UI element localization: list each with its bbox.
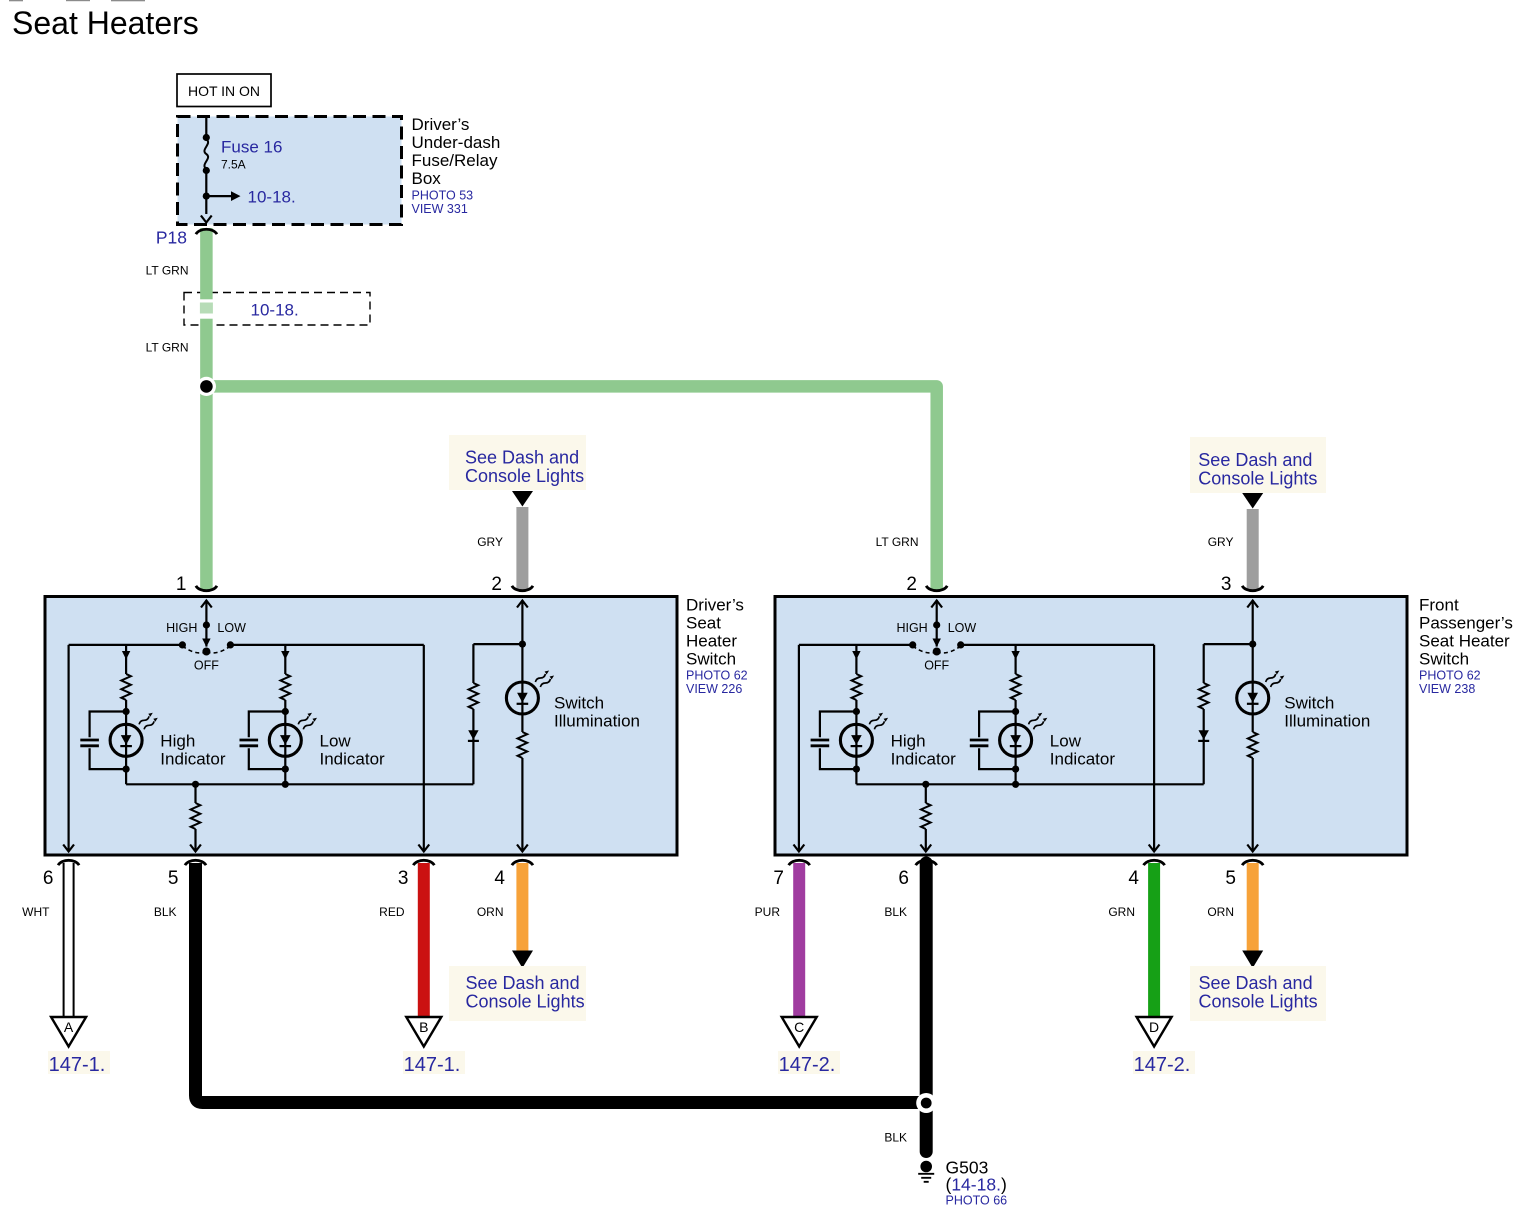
connector B triangle [406,1017,441,1047]
svg-text:ORN: ORN [1207,905,1234,919]
svg-text:2: 2 [491,574,502,595]
svg-text:Front: Front [1419,596,1459,615]
wire BLK pin5 driver to splice [196,863,927,1103]
fuse/relay box (dashed) [178,117,402,225]
svg-text:1: 1 [176,574,187,595]
svg-text:RED: RED [379,905,405,919]
svg-text:10-18.: 10-18. [251,301,299,320]
svg-text:BLK: BLK [884,905,907,919]
svg-text:D: D [1149,1019,1159,1035]
svg-text:GRN: GRN [1108,905,1135,919]
svg-text:147-1.: 147-1. [404,1054,461,1076]
branch arrow to 10-18 [206,195,231,197]
svg-text:Fuse/Relay: Fuse/Relay [412,151,498,170]
svg-text:3: 3 [1221,574,1232,595]
arrow from dash lights [1242,493,1263,509]
svg-text:Seat: Seat [686,614,721,633]
node [203,193,210,200]
connector D triangle [1137,1017,1172,1047]
wire ORN pin5 passenger [1247,863,1259,951]
svg-text:5: 5 [1225,868,1236,889]
pin 1 bracket (driver) [196,586,217,591]
label 147-1. [403,1051,465,1074]
svg-text:5: 5 [168,868,179,889]
svg-text:Driver’s: Driver’s [412,115,470,134]
svg-text:147-2.: 147-2. [1134,1054,1191,1076]
svg-text:2: 2 [906,574,917,595]
pin 7 bracket (passenger) [789,860,810,865]
cut-off text sliver at top edge [9,0,23,1]
svg-text:VIEW 238: VIEW 238 [1419,682,1475,696]
wire BLK pin6 passenger to ground [920,863,933,1152]
svg-text:Heater: Heater [686,632,737,651]
connector C triangle [782,1017,817,1047]
svg-text:GRY: GRY [1208,535,1234,549]
svg-text:10-18.: 10-18. [248,188,296,207]
svg-text:147-2.: 147-2. [779,1054,836,1076]
svg-text:C: C [794,1019,804,1035]
svg-text:LT GRN: LT GRN [876,535,919,549]
svg-text:P18: P18 [156,228,187,248]
svg-text:4: 4 [1128,868,1139,889]
wire LT GRN main feed [206,228,936,590]
note See Dash and Console Lights (passenger top) [1190,437,1326,493]
note See Dash and Console Lights (driver bottom) [449,966,586,1021]
svg-text:A: A [64,1019,74,1035]
HOT IN ON box [177,74,271,107]
svg-text:Console Lights: Console Lights [1199,992,1318,1012]
svg-text:WHT: WHT [22,905,50,919]
fuse F16 element [204,139,208,169]
driver switch interior [63,600,640,852]
arrow down to P18 [201,216,212,223]
pin 4 bracket (driver) [512,860,533,865]
svg-text:147-1.: 147-1. [49,1054,106,1076]
passenger switch interior [794,600,1371,852]
wire RED pin3 driver [418,863,430,1017]
wire ORN pin4 driver [516,863,528,951]
pin 2 bracket (driver) [512,586,533,591]
fuse feed wire [205,118,207,214]
wire PUR pin7 passenger [793,863,805,1017]
svg-text:Console Lights: Console Lights [1198,469,1317,489]
pin 3 bracket (passenger) [1242,586,1263,591]
svg-text:6: 6 [43,868,54,889]
svg-text:Seat Heater: Seat Heater [1419,632,1510,651]
pin 3 bracket (driver) [413,860,434,865]
svg-text:Driver’s: Driver’s [686,596,744,615]
arrow from dash lights [512,491,533,507]
wire GRN pin4 passenger [1148,863,1160,1017]
wire GRY (driver) [516,507,528,590]
pin 6 bracket (passenger) [916,860,937,865]
svg-text:BLK: BLK [154,905,177,919]
in-line connector 10-18 white gaps [199,299,214,318]
svg-text:PHOTO 62: PHOTO 62 [686,669,748,683]
svg-text:(14-18.): (14-18.) [946,1175,1007,1195]
splice node on LT GRN [197,377,216,396]
label 147-2. [778,1051,840,1074]
node [203,167,210,174]
svg-text:Seat Heaters: Seat Heaters [12,5,199,41]
svg-text:See Dash and: See Dash and [1199,973,1313,993]
svg-text:HOT IN ON: HOT IN ON [188,83,260,99]
note See Dash and Console Lights (passenger bottom) [1190,966,1326,1021]
label 147-2. [1133,1051,1195,1074]
svg-text:PHOTO 53: PHOTO 53 [412,189,474,203]
svg-text:GRY: GRY [477,535,503,549]
ground G503 symbol [920,1161,932,1173]
svg-text:Console Lights: Console Lights [465,466,584,486]
svg-text:PHOTO 66: PHOTO 66 [946,1194,1008,1208]
svg-text:B: B [419,1019,428,1035]
in-line connector 10-18 dashed box [184,293,370,326]
note See Dash and Console Lights (driver top) [449,435,586,490]
pin 4 bracket (passenger) [1144,860,1165,865]
svg-text:Under-dash: Under-dash [412,133,501,152]
svg-text:See Dash and: See Dash and [1198,450,1312,470]
svg-text:Passenger’s: Passenger’s [1419,614,1513,633]
svg-text:7.5A: 7.5A [221,158,246,172]
svg-text:PUR: PUR [755,905,781,919]
wire GRY (passenger) [1247,509,1259,590]
driver switch box [45,597,677,856]
svg-text:4: 4 [494,868,505,889]
passenger switch box [775,597,1407,856]
pin 5 bracket (driver) [185,860,206,865]
svg-text:Console Lights: Console Lights [466,992,585,1012]
node [203,134,210,141]
label 147-1. [48,1051,110,1074]
svg-text:Box: Box [412,169,442,188]
svg-text:PHOTO 62: PHOTO 62 [1419,669,1481,683]
arrow to dash lights [512,951,533,969]
svg-text:Switch: Switch [686,650,736,669]
splice ring on BLK [916,1093,936,1113]
svg-text:See Dash and: See Dash and [465,448,579,468]
svg-text:3: 3 [398,868,409,889]
svg-text:VIEW 226: VIEW 226 [686,682,742,696]
wire WHT pin6 driver [64,863,74,1017]
svg-text:See Dash and: See Dash and [466,973,580,993]
connector A triangle [51,1017,86,1047]
svg-text:Fuse 16: Fuse 16 [221,138,282,157]
pin 5 bracket (passenger) [1242,860,1263,865]
svg-text:LT GRN: LT GRN [146,264,189,278]
svg-text:VIEW 331: VIEW 331 [412,202,468,216]
arrow to dash lights [1242,951,1263,969]
svg-text:LT GRN: LT GRN [146,341,189,355]
svg-text:BLK: BLK [884,1131,907,1145]
pin 2 bracket (passenger) [926,586,947,591]
connector P18 bracket [196,229,217,234]
svg-text:Switch: Switch [1419,650,1469,669]
pin 6 bracket (driver) [58,860,79,865]
svg-text:6: 6 [898,868,909,889]
svg-text:ORN: ORN [477,905,504,919]
svg-text:7: 7 [773,868,784,889]
